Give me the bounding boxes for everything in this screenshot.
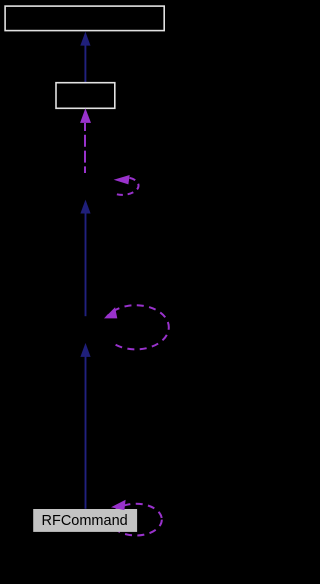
RFCommand self-loop (dashed darkorchid ellipse, behind box) (110, 504, 162, 536)
class box 2 (ancestor, transparent label) (56, 83, 115, 109)
inheritance arrow 4 (RFCommand to node4, solid midnightblue) (80, 343, 90, 509)
RFCommand self-loop arrowhead (111, 500, 126, 510)
node3 self-loop (dashed darkorchid arc) (113, 178, 139, 195)
svg-text:RFCommand: RFCommand (41, 513, 127, 529)
node4 self-loop (dashed darkorchid ellipse) (103, 305, 169, 349)
class node RFCommand (current class, grey fill) (33, 509, 137, 532)
node3 cover (invisible node body) (58, 174, 114, 200)
node4 self-loop arrowhead (104, 307, 117, 318)
inheritance arrow 3 (node4 to node3, solid midnightblue) (80, 200, 90, 317)
inheritance arrow 1 (box2 to box1, solid midnightblue) (80, 32, 90, 83)
node4 cover (invisible node body) (62, 317, 112, 343)
class box top (ancestor, transparent label) (5, 6, 164, 31)
usage arrow 2 (node3 to box2, dashed darkorchid) (80, 108, 91, 173)
node3 self-loop arrowhead (114, 175, 130, 184)
